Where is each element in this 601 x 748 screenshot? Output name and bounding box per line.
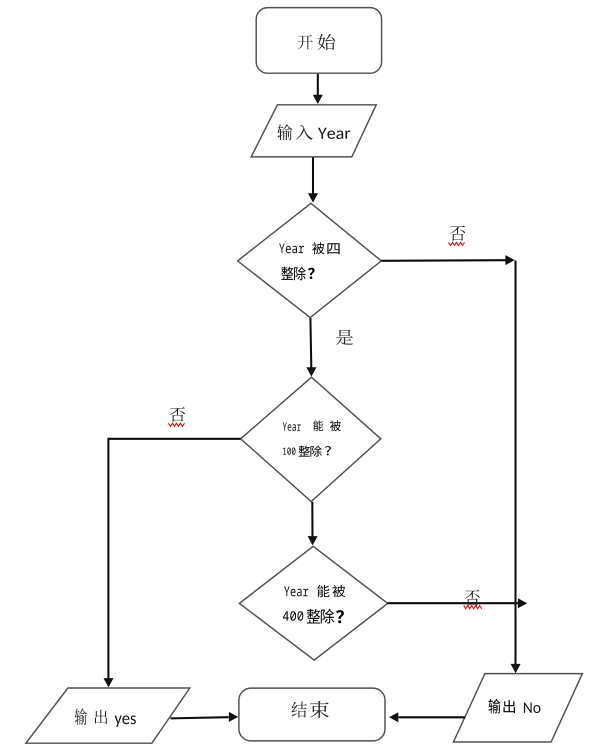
label 否 (D3 branch) (465, 590, 480, 606)
wire: arrow D3 right -> trunk (no branch) (388, 598, 528, 608)
io parallelogram 输出 No (454, 674, 583, 742)
label 结束 (292, 701, 329, 718)
label No (524, 703, 541, 714)
decision diamond D1: Year 被四整除? (238, 203, 382, 317)
spellcheck squiggle under 否 #1 (449, 242, 465, 245)
label Year (D1) (279, 244, 304, 254)
label 整除？ (D2) (299, 446, 331, 457)
label 能 被 (D3) (317, 585, 345, 597)
label yes (115, 715, 136, 727)
wire: arrow 输出yes -> 结束 (171, 712, 239, 722)
wire: arrow 开始 -> 输入Year (313, 74, 323, 104)
label 整除？ (D3) (307, 609, 344, 624)
label 能 被 (D2) (313, 420, 341, 431)
label 是 (336, 330, 353, 345)
wire: arrow D2 bottom -> D3 (308, 502, 318, 546)
decision diamond D3: Year 能被400整除? (239, 546, 387, 660)
label 被 四 (D1) (312, 242, 339, 254)
label 否 (D1 branch) (450, 226, 465, 241)
label 否 (D2 branch) (170, 407, 185, 422)
label 开始 (298, 34, 335, 50)
io parallelogram 输入 Year (251, 105, 376, 157)
spellcheck squiggle under 否 #3 (464, 606, 482, 609)
wire: arrow D1 right -> trunk (no branch) (381, 255, 514, 265)
label 100 (D2) (283, 448, 296, 455)
decision diamond D2: Year 能被100整除? (241, 377, 381, 501)
label 输出 (yes box) (75, 708, 108, 725)
label 输入 (277, 124, 313, 140)
io parallelogram 输出 yes (26, 688, 190, 743)
label Year (input box) (318, 128, 350, 139)
wire: arrow 输出No -> 结束 (389, 712, 465, 722)
wire: vertical trunk to 输出No (511, 261, 521, 674)
terminator node START (开始) (256, 8, 381, 74)
wire: arrow 输入Year -> decision1 (308, 158, 318, 203)
label Year (D2) (283, 422, 301, 431)
wire: arrow D1 bottom -> D2 (yes branch) (306, 318, 316, 377)
spellcheck squiggle under 否 #2 (169, 423, 185, 426)
label Year (D3) (284, 586, 308, 596)
terminator node END (结束) (239, 688, 385, 741)
label 整除？ (D1) (281, 267, 314, 281)
label 400 (D3) (283, 611, 303, 621)
label 输出 (No box) (489, 699, 516, 714)
wire: D2 left -> down to 输出yes (no branch) (104, 439, 241, 688)
